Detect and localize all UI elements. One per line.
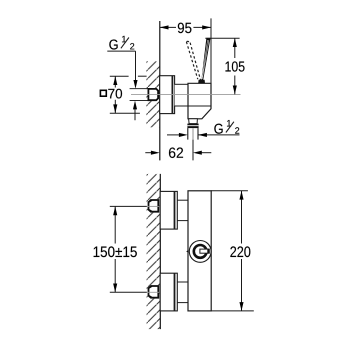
top supply center line (gray) <box>147 205 160 207</box>
neck (side view) <box>175 84 188 106</box>
dim 150±15 <box>114 206 116 292</box>
knob tab <box>200 249 209 253</box>
escutcheon (side view) <box>160 76 175 114</box>
knob index mark on body edge <box>186 250 188 253</box>
hose tail: dark band <box>187 124 198 129</box>
wall face line (side view) <box>159 21 161 160</box>
hose tail: threaded stub <box>187 128 189 140</box>
bottom supply extension line (150 dim, bottom) <box>110 291 147 293</box>
dim 62 <box>145 152 156 154</box>
bottom supply center line (gray) <box>147 291 160 293</box>
lever base blob <box>198 80 205 84</box>
hose tail: taper <box>189 119 198 124</box>
wall hatch (side view) <box>146 61 159 127</box>
wire supply pipe walls (side view) <box>130 88 149 90</box>
dim 95 <box>160 26 211 28</box>
62 extension (hose axis) <box>192 140 194 161</box>
knob outer circle <box>189 241 211 263</box>
wall hatch (front view) <box>147 174 161 329</box>
top supply extension line (150 dim, top) <box>110 205 147 207</box>
escutcheon (front view, bottom) <box>160 273 177 311</box>
wall face line (front view) <box>159 174 161 329</box>
lever dashed (alternate position) <box>186 41 200 80</box>
lever solid <box>201 38 210 82</box>
stub center line <box>192 128 194 139</box>
neck (front view, top) <box>177 199 188 201</box>
union nut (front view, bottom) <box>148 285 160 299</box>
body parting line (side view) <box>175 105 211 107</box>
union nut (front view, top) <box>148 199 160 213</box>
union nut (side view) <box>148 88 160 101</box>
knob inner ring <box>194 245 207 258</box>
label G 1/2 (bottom, hose outlet) <box>214 124 222 134</box>
escutcheon (front view, top) <box>160 191 177 229</box>
body (front view) <box>188 191 211 311</box>
dim square-70 <box>110 76 147 113</box>
knob tab end cap <box>207 249 209 254</box>
dim 220 <box>211 190 248 192</box>
neck (front view, bottom) <box>177 281 188 283</box>
node axis center line (side view) <box>131 94 241 96</box>
dim 105 <box>205 37 239 39</box>
label G 1/2 (top, supply) <box>109 39 117 49</box>
body box (side view) <box>188 83 211 119</box>
